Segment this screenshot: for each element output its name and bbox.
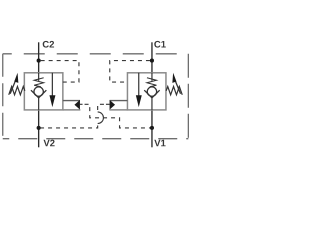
- check valve seat right: [144, 90, 159, 98]
- port C2 line: [38, 42, 40, 73]
- check valve spring left: [34, 78, 44, 87]
- check valve ball right: [147, 87, 156, 96]
- wire seat to body bottom left: [38, 98, 40, 110]
- pilot arrow tail left: [80, 103, 83, 105]
- relief adjustable spring left: [9, 87, 25, 95]
- external pilot line V2 to right valve upper part: [98, 104, 106, 112]
- pilot stub lines left: [63, 100, 80, 102]
- outer assembly boundary (dashed enclosure): [3, 54, 189, 139]
- pilot line hop over crossing: [98, 112, 104, 124]
- junction dot V1 pilot tap: [150, 126, 154, 130]
- check valve ball left: [34, 87, 43, 96]
- boundary left edge: [2, 54, 4, 139]
- port V2 line: [38, 110, 40, 147]
- boundary right edge: [187, 54, 189, 139]
- port label V1: [154, 140, 165, 147]
- junction dot V2 pilot tap: [37, 126, 41, 130]
- port C1 line: [151, 42, 153, 73]
- pilot arrow left: [74, 100, 80, 110]
- check valve inlet wire right: [151, 73, 153, 81]
- counterbalance valve body right: [127, 73, 166, 110]
- port V1 line: [151, 110, 153, 147]
- relief flow arrow right: [138, 73, 140, 97]
- relief flow arrow left: [51, 73, 53, 97]
- external pilot line V2 to right valve lower part: [39, 124, 98, 128]
- adjustment arrow right: [175, 80, 181, 93]
- check valve spring right: [147, 78, 157, 87]
- relief adjustable spring right: [166, 87, 182, 95]
- port label V2: [43, 140, 54, 147]
- pilot arrow right: [110, 100, 116, 110]
- port label C1: [154, 41, 165, 48]
- external pilot line V1 to left valve: [83, 104, 152, 128]
- wire seat to body bottom right: [151, 98, 153, 110]
- adjustment arrow left: [10, 80, 16, 93]
- port label C2: [43, 41, 54, 48]
- counterbalance valve body left: [24, 73, 63, 110]
- junction dot C1 pilot tap: [150, 59, 154, 63]
- pilot arrow tail right: [106, 103, 110, 105]
- pilot stub lines right: [110, 100, 128, 102]
- internal pilot line C1 to right valve: [110, 61, 152, 83]
- check valve seat left: [31, 90, 46, 98]
- boundary bottom edge: [3, 138, 189, 140]
- internal pilot line C2 to left valve: [39, 61, 79, 83]
- check valve inlet wire left: [38, 73, 40, 81]
- junction dot C2 pilot tap: [37, 59, 41, 63]
- boundary top edge: [3, 53, 189, 55]
